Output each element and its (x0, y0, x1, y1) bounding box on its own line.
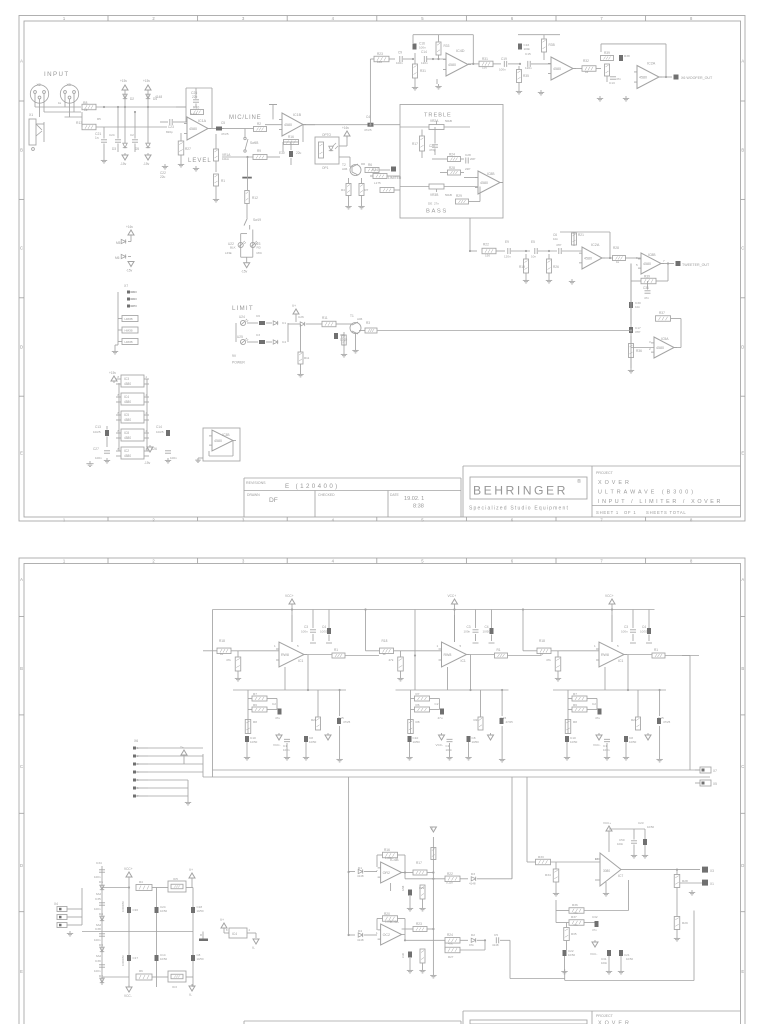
svg-text:4580: 4580 (124, 454, 131, 458)
svg-text:22u: 22u (296, 151, 302, 155)
svg-text:C14: C14 (156, 425, 162, 429)
svg-text:R29: R29 (682, 921, 688, 925)
svg-text:22P: 22P (465, 167, 470, 171)
svg-text:47u: 47u (595, 716, 600, 720)
svg-text:X2: X2 (37, 83, 41, 87)
svg-text:47k: 47k (448, 942, 453, 946)
svg-text:22u: 22u (160, 175, 166, 179)
svg-text:REVISIONS: REVISIONS (246, 481, 266, 485)
svg-text:R38: R38 (624, 54, 630, 58)
svg-text:1k: 1k (585, 70, 589, 74)
svg-text:4580: 4580 (584, 257, 592, 261)
svg-text:R32: R32 (583, 59, 589, 63)
svg-text:47/25: 47/25 (343, 720, 351, 724)
svg-text:R33: R33 (444, 44, 450, 48)
svg-text:-15v: -15v (120, 162, 127, 166)
svg-text:L175: L175 (374, 181, 381, 185)
svg-text:10/50: 10/50 (629, 740, 637, 744)
svg-text:4580: 4580 (124, 382, 131, 386)
svg-text:IC1: IC1 (461, 659, 466, 663)
svg-text:R18: R18 (539, 639, 545, 643)
svg-text:IC4B: IC4B (390, 858, 399, 862)
svg-text:R27: R27 (448, 955, 454, 959)
svg-text:R10: R10 (193, 106, 199, 110)
svg-text:SHEETS TOTAL: SHEETS TOTAL (646, 510, 687, 515)
svg-text:VCC+: VCC+ (124, 867, 133, 871)
svg-text:R1: R1 (221, 179, 225, 183)
svg-text:IC3B: IC3B (222, 433, 230, 437)
svg-text:1k: 1k (616, 260, 620, 264)
svg-text:120n: 120n (504, 255, 511, 259)
svg-text:R28: R28 (449, 166, 455, 170)
svg-text:100n: 100n (446, 748, 453, 752)
svg-text:R7: R7 (573, 692, 577, 696)
svg-text:Y+: Y+ (180, 745, 184, 749)
svg-text:SHEET 1: SHEET 1 (596, 510, 619, 515)
svg-text:VCC-: VCC- (124, 994, 132, 998)
svg-text:R8: R8 (253, 720, 257, 724)
svg-text:C30: C30 (401, 953, 405, 958)
svg-text:C3: C3 (467, 625, 471, 629)
svg-text:6A2: 6A2 (96, 954, 102, 958)
svg-text:19.02. 1: 19.02. 1 (404, 496, 424, 502)
svg-text:IC2A: IC2A (591, 243, 600, 247)
svg-text:R7: R7 (416, 692, 420, 696)
svg-text:INPUT: INPUT (44, 71, 70, 78)
svg-text:IC1B: IC1B (293, 113, 302, 117)
svg-text:R16: R16 (288, 135, 294, 139)
svg-text:U7: U7 (131, 304, 135, 308)
svg-text:10n: 10n (531, 255, 536, 259)
svg-text:D8: D8 (99, 912, 103, 916)
svg-text:C38: C38 (95, 927, 101, 931)
svg-text:C6: C6 (256, 314, 260, 318)
svg-text:4580: 4580 (480, 181, 488, 185)
svg-text:R7: R7 (253, 692, 257, 696)
svg-text:IC5: IC5 (124, 413, 129, 417)
svg-text:100n: 100n (603, 748, 610, 752)
svg-text:R28: R28 (613, 246, 619, 250)
svg-text:1k: 1k (383, 652, 387, 656)
svg-text:47n: 47n (592, 928, 597, 932)
svg-text:C: C (20, 764, 23, 769)
svg-text:4148: 4148 (492, 943, 499, 947)
svg-text:+16v: +16v (126, 225, 133, 229)
svg-text:10n: 10n (635, 305, 640, 309)
svg-text:50kB: 50kB (445, 193, 452, 197)
svg-text:10/50: 10/50 (483, 630, 491, 634)
svg-text:R36: R36 (636, 349, 642, 353)
svg-text:22p: 22p (192, 95, 198, 99)
svg-text:IC5A: IC5A (661, 337, 669, 341)
svg-text:-15v: -15v (143, 162, 150, 166)
svg-text:C15: C15 (525, 52, 531, 56)
svg-text:OP1: OP1 (322, 166, 329, 170)
svg-text:100n: 100n (94, 907, 101, 911)
svg-text:R8: R8 (573, 720, 577, 724)
svg-text:V-: V- (189, 993, 192, 997)
svg-text:IC2: IC2 (124, 449, 129, 453)
svg-text:150: 150 (482, 66, 487, 70)
svg-text:C23: C23 (168, 125, 174, 129)
svg-text:OC2: OC2 (383, 933, 390, 937)
svg-text:1k: 1k (58, 101, 62, 105)
svg-text:IC4: IC4 (124, 395, 129, 399)
svg-text:120n: 120n (421, 61, 428, 65)
svg-text:47k: 47k (573, 923, 578, 927)
svg-text:X1: X1 (710, 882, 714, 886)
svg-text:DATE: DATE (390, 493, 400, 497)
svg-text:R6: R6 (253, 703, 257, 707)
svg-text:R7: R7 (365, 188, 369, 192)
svg-text:C2: C2 (435, 702, 439, 706)
svg-text:MIC: MIC (257, 251, 263, 255)
svg-text:X4: X4 (54, 902, 58, 906)
svg-text:4580: 4580 (643, 262, 651, 266)
svg-text:4580: 4580 (656, 346, 664, 350)
svg-text:100n: 100n (94, 875, 101, 879)
svg-text:10/50: 10/50 (197, 957, 204, 961)
svg-text:E30: E30 (279, 151, 285, 155)
svg-text:10/50: 10/50 (568, 953, 575, 957)
svg-text:R13: R13 (76, 121, 82, 125)
svg-text:47k: 47k (546, 658, 551, 662)
svg-text:E: E (741, 451, 744, 456)
svg-text:RW8: RW8 (444, 653, 452, 657)
svg-text:R35: R35 (523, 74, 529, 78)
svg-text:C2: C2 (130, 133, 134, 137)
svg-text:47k: 47k (389, 658, 394, 662)
svg-text:9V: 9V (232, 354, 237, 358)
svg-text:R1: R1 (654, 648, 658, 652)
svg-text:R6: R6 (139, 969, 143, 973)
svg-text:X1: X1 (29, 113, 33, 117)
svg-text:A06: A06 (357, 317, 363, 321)
svg-text:C4: C4 (642, 625, 646, 629)
svg-text:DRAWN: DRAWN (247, 493, 260, 497)
svg-text:10/50: 10/50 (472, 740, 480, 744)
svg-text:R24: R24 (447, 933, 453, 937)
svg-text:R: R (200, 933, 202, 937)
svg-text:3080: 3080 (603, 869, 610, 873)
svg-text:R39: R39 (604, 51, 610, 55)
svg-text:10/50: 10/50 (570, 740, 578, 744)
svg-text:VCC-: VCC- (436, 743, 444, 747)
svg-text:VCC-: VCC- (593, 743, 601, 747)
svg-text:C17: C17 (133, 956, 139, 960)
svg-text:8:38: 8:38 (413, 504, 424, 510)
svg-text:MIC/LINE: MIC/LINE (229, 115, 261, 121)
svg-text:R18: R18 (219, 639, 225, 643)
svg-text:HM3B: HM3B (125, 340, 133, 344)
svg-text:A: A (741, 59, 744, 64)
svg-text:R29: R29 (456, 194, 462, 198)
svg-text:XOVER: XOVER (598, 1021, 632, 1025)
svg-text:4580: 4580 (214, 439, 222, 443)
svg-text:IC1A: IC1A (198, 119, 207, 123)
svg-text:4580: 4580 (124, 400, 131, 404)
svg-text:R8: R8 (416, 720, 420, 724)
svg-text:C14: C14 (421, 50, 427, 54)
svg-text:100n: 100n (419, 46, 426, 50)
svg-text:R27: R27 (185, 147, 191, 151)
svg-text:C34: C34 (96, 861, 102, 865)
svg-text:R11: R11 (322, 316, 328, 320)
svg-text:PROJECT: PROJECT (596, 1014, 614, 1018)
svg-text:150: 150 (485, 254, 490, 258)
svg-text:TWEETER_OUT: TWEETER_OUT (682, 263, 710, 267)
svg-text:D2: D2 (471, 933, 475, 937)
svg-text:M6: M6 (115, 256, 120, 260)
svg-text:R3B: R3B (549, 43, 555, 47)
svg-text:PROJECT: PROJECT (596, 471, 614, 475)
svg-text:100n: 100n (464, 630, 471, 634)
svg-text:D9: D9 (99, 943, 103, 947)
svg-text:100n: 100n (499, 68, 506, 72)
svg-text:A: A (741, 577, 744, 582)
svg-text:R11: R11 (304, 356, 310, 360)
svg-text:R17: R17 (412, 142, 418, 146)
svg-text:A: A (20, 577, 23, 582)
svg-text:C5: C5 (494, 933, 498, 937)
svg-text:R9: R9 (257, 149, 261, 153)
svg-text:D4: D4 (358, 929, 362, 933)
svg-text:U24: U24 (239, 315, 245, 319)
svg-text:C1: C1 (282, 321, 286, 325)
svg-text:E: E (20, 451, 23, 456)
svg-text:M5: M5 (116, 241, 121, 245)
svg-text:D: D (741, 863, 744, 868)
svg-text:10/50: 10/50 (647, 825, 654, 829)
svg-text:E5: E5 (531, 240, 535, 244)
svg-text:10/50: 10/50 (160, 957, 167, 961)
svg-text:V-: V- (252, 946, 255, 950)
svg-text:X6 WOOFER_OUT: X6 WOOFER_OUT (681, 76, 713, 80)
svg-text:D3: D3 (471, 872, 475, 876)
svg-text:Sw19: Sw19 (253, 218, 261, 222)
svg-text:C4: C4 (282, 340, 286, 344)
svg-text:ULTRAWAVE (B300): ULTRAWAVE (B300) (598, 490, 696, 496)
svg-text:C2: C2 (272, 702, 276, 706)
svg-text:C35: C35 (95, 897, 101, 901)
svg-text:47n: 47n (644, 296, 649, 300)
svg-text:47/25: 47/25 (663, 720, 671, 724)
svg-text:R2L: R2L (311, 718, 317, 722)
svg-text:VCC-: VCC- (273, 743, 281, 747)
svg-text:D3: D3 (112, 147, 116, 151)
svg-text:R2L: R2L (474, 718, 480, 722)
svg-text:IC8B: IC8B (648, 253, 656, 257)
svg-text:IC1: IC1 (618, 659, 623, 663)
svg-text:A: A (20, 59, 23, 64)
svg-text:27n: 27n (434, 202, 439, 206)
svg-text:R23: R23 (377, 52, 383, 56)
svg-text:R26: R26 (553, 265, 559, 269)
svg-text:Specialized Studio Equipment: Specialized Studio Equipment (469, 506, 569, 512)
svg-text:IC7: IC7 (618, 874, 623, 878)
svg-text:C39: C39 (95, 959, 101, 963)
svg-text:BLK: BLK (230, 246, 236, 250)
svg-text:100: 100 (377, 60, 382, 64)
svg-text:-15v: -15v (126, 269, 133, 273)
svg-text:VCC+: VCC+ (285, 594, 294, 598)
svg-text:R37: R37 (571, 915, 577, 919)
svg-text:R23: R23 (416, 922, 422, 926)
svg-text:OF 1: OF 1 (624, 510, 637, 515)
svg-text:10000/50: 10000/50 (121, 901, 125, 912)
svg-text:6A2: 6A2 (96, 892, 102, 896)
svg-text:C9: C9 (398, 51, 402, 55)
svg-text:Sw5B: Sw5B (250, 141, 258, 145)
svg-text:IC3: IC3 (124, 377, 129, 381)
svg-text:+16v: +16v (342, 126, 349, 130)
svg-text:C31: C31 (643, 286, 649, 290)
svg-text:C3: C3 (304, 625, 308, 629)
svg-text:100n: 100n (170, 456, 177, 460)
svg-text:R31: R31 (420, 69, 426, 73)
svg-text:X7: X7 (713, 769, 717, 773)
svg-text:37P: 37P (635, 330, 640, 334)
svg-text:IC2A: IC2A (647, 62, 656, 66)
svg-text:R31: R31 (482, 57, 488, 61)
svg-text:47/25: 47/25 (221, 132, 229, 136)
svg-text:4580: 4580 (448, 63, 456, 67)
svg-text:100n: 100n (301, 630, 308, 634)
svg-text:IC3: IC3 (172, 985, 177, 989)
svg-text:R4: R4 (341, 188, 345, 192)
svg-text:X5: X5 (713, 782, 717, 786)
svg-text:+15v: +15v (109, 371, 116, 375)
svg-text:OPTO: OPTO (322, 133, 331, 137)
svg-text:BASS: BASS (426, 209, 448, 215)
svg-text:HM3B: HM3B (125, 317, 133, 321)
svg-text:97k: 97k (469, 943, 474, 947)
svg-text:C4: C4 (485, 625, 489, 629)
svg-text:R1: R1 (497, 648, 501, 652)
svg-text:C3: C3 (624, 625, 628, 629)
svg-text:A06: A06 (342, 167, 348, 171)
svg-text:D5: D5 (135, 147, 139, 151)
svg-text:R14: R14 (372, 168, 378, 172)
svg-text:4580: 4580 (124, 418, 131, 422)
svg-text:R2L: R2L (631, 718, 637, 722)
svg-text:100n: 100n (524, 47, 531, 51)
svg-text:R35: R35 (571, 932, 577, 936)
svg-text:100n: 100n (95, 456, 102, 460)
svg-text:U26: U26 (298, 315, 304, 319)
svg-text:C19: C19 (501, 57, 507, 61)
svg-text:B: B (741, 148, 744, 153)
svg-text:10/50: 10/50 (197, 909, 204, 913)
svg-text:B: B (20, 666, 23, 671)
svg-text:C32: C32 (592, 915, 598, 919)
svg-text:IC8: IC8 (124, 431, 129, 435)
svg-text:R1: R1 (334, 648, 338, 652)
svg-text:10/50: 10/50 (626, 957, 633, 961)
svg-text:4580: 4580 (124, 436, 131, 440)
svg-text:R24: R24 (449, 153, 455, 157)
svg-text:+15v: +15v (120, 79, 127, 83)
svg-text:DF: DF (269, 497, 278, 504)
svg-text:4148: 4148 (357, 874, 364, 878)
svg-text:47u: 47u (438, 716, 443, 720)
svg-text:10/50: 10/50 (413, 740, 421, 744)
svg-text:C29: C29 (419, 886, 425, 890)
svg-text:RW8: RW8 (601, 653, 609, 657)
svg-text:LIMIT: LIMIT (232, 305, 254, 312)
svg-text:V+: V+ (189, 868, 193, 872)
svg-text:RW8: RW8 (281, 653, 289, 657)
svg-text:4580: 4580 (553, 67, 561, 71)
svg-text:C2: C2 (592, 702, 596, 706)
svg-text:LINE: LINE (225, 251, 232, 255)
svg-text:IC4D: IC4D (456, 49, 465, 53)
svg-text:R22: R22 (483, 243, 489, 247)
svg-text:VCC-: VCC- (590, 952, 597, 956)
svg-text:47u: 47u (275, 716, 280, 720)
svg-text:R17: R17 (416, 861, 422, 865)
svg-text:47P: 47P (556, 243, 561, 247)
svg-text:®: ® (577, 478, 581, 485)
svg-text:R34: R34 (545, 873, 551, 877)
svg-text:10/50: 10/50 (309, 740, 317, 744)
svg-text:R28: R28 (682, 879, 688, 883)
svg-text:4580: 4580 (284, 123, 292, 127)
svg-text:C27: C27 (93, 447, 99, 451)
svg-text:R5: R5 (97, 117, 101, 121)
svg-text:C: C (741, 764, 744, 769)
svg-text:V+: V+ (292, 304, 296, 308)
svg-text:1n: 1n (95, 136, 99, 140)
svg-text:D6: D6 (99, 880, 103, 884)
svg-text:C: C (741, 246, 744, 251)
svg-text:47/25: 47/25 (364, 128, 372, 132)
svg-text:R3: R3 (366, 321, 370, 325)
svg-text:B: B (20, 148, 23, 153)
svg-text:820p: 820p (166, 130, 173, 134)
svg-text:C23: C23 (638, 821, 644, 825)
svg-text:VCC+: VCC+ (603, 821, 611, 825)
svg-text:C3: C3 (256, 333, 260, 337)
svg-text:R6: R6 (416, 703, 420, 707)
svg-text:50kB: 50kB (445, 119, 452, 123)
svg-text:INPUT / LIMITER / XOVER: INPUT / LIMITER / XOVER (598, 499, 723, 505)
svg-text:R4: R4 (139, 880, 143, 884)
svg-text:VCC+: VCC+ (605, 594, 614, 598)
svg-text:T1: T1 (350, 314, 354, 318)
svg-text:120n: 120n (525, 66, 532, 70)
svg-text:4148: 4148 (155, 95, 162, 99)
svg-text:100n: 100n (601, 961, 608, 965)
svg-text:10n: 10n (553, 237, 558, 241)
svg-text:0,11k: 0,11k (446, 881, 453, 885)
svg-text:IC8B: IC8B (487, 172, 495, 176)
svg-text:100n: 100n (283, 748, 290, 752)
svg-text:E: E (20, 969, 23, 974)
svg-text:HM3B: HM3B (125, 328, 133, 332)
svg-text:IC1: IC1 (298, 659, 303, 663)
svg-text:10/50: 10/50 (640, 630, 648, 634)
svg-text:C13: C13 (95, 425, 101, 429)
svg-text:VR2A: VR2A (430, 119, 439, 123)
svg-text:CHECKED: CHECKED (318, 493, 335, 497)
svg-text:D2: D2 (130, 97, 134, 101)
svg-text:R37: R37 (659, 311, 665, 315)
svg-text:X7: X7 (124, 284, 128, 288)
svg-text:4148: 4148 (469, 882, 476, 886)
svg-text:4148: 4148 (357, 938, 364, 942)
svg-text:U6: U6 (131, 297, 135, 301)
